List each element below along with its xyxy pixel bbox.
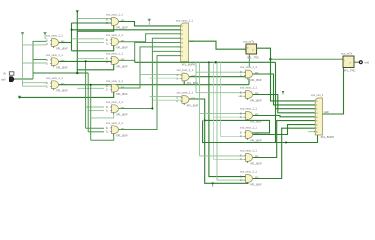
svg-text:XFL_BUF: XFL_BUF <box>250 78 262 82</box>
wire v22.5 net <box>22 33 24 86</box>
svg-text:XFL_TRC: XFL_TRC <box>344 69 356 73</box>
LUT8 M2 <box>311 93 334 139</box>
wire U16 pin b stub <box>238 95 246 97</box>
LUT U5 <box>106 33 128 50</box>
LUT U18 <box>240 126 262 143</box>
wire U8 out to M1 pin7 <box>119 38 181 108</box>
node N8 (net stub) <box>282 91 284 95</box>
wire net to OBUF1 input <box>271 58 344 60</box>
wire x77.3 to U4 bottom <box>77 26 113 31</box>
svg-text:XFL_BUF: XFL_BUF <box>116 25 128 29</box>
svg-text:XFL_BUF: XFL_BUF <box>116 92 128 96</box>
wire v275.5 to M2 pin3 <box>276 108 316 110</box>
wire trunk x33 vertical <box>33 41 46 79</box>
wire feed U14 pin b <box>153 99 182 101</box>
wire v88.2 to U8 pin <box>88 110 104 112</box>
wire v220.5 net <box>221 62 246 136</box>
wire U18 out to M2 <box>253 125 316 135</box>
wire U4 out to M1 pin1 <box>119 22 181 26</box>
wire OBUF1 out <box>354 61 359 63</box>
wire U13 out to U15 <box>189 76 246 78</box>
wire v217 net <box>216 62 218 180</box>
svg-text:xxx_xxxx_1_1: xxx_xxxx_1_1 <box>106 33 123 37</box>
wire feed U4 top pin <box>77 18 111 20</box>
LUT U19 <box>240 149 262 166</box>
svg-text:xxx_xxTx: xxx_xxTx <box>341 52 353 56</box>
wire v88.2 net <box>87 73 89 132</box>
svg-text:xxx_xxxx_1_1: xxx_xxxx_1_1 <box>177 91 194 95</box>
wire x33 branch to U2 pin <box>33 59 46 61</box>
wire feed U5 pin b <box>77 41 104 43</box>
wire v213.4 to U17 <box>213 116 245 118</box>
svg-text:xxx_xxxx_1_1: xxx_xxxx_1_1 <box>176 18 193 22</box>
svg-text:xxx_xxxx_1_1: xxx_xxxx_1_1 <box>240 86 257 90</box>
wire v199.5 to U19 <box>200 155 246 157</box>
node J5 (junction dot) <box>215 61 217 63</box>
wire v22.5 to U3 pin2 <box>23 85 47 87</box>
output pad led0 <box>359 60 370 64</box>
wire v134.7 link <box>134 60 136 62</box>
wire v85.6 to U8 pin <box>86 106 104 108</box>
svg-text:xxx_xxxx_1_1: xxx_xxxx_1_1 <box>46 34 63 38</box>
wire trunk x77.3 <box>76 12 78 73</box>
svg-text:XFL_BUF: XFL_BUF <box>250 161 262 165</box>
wire FF1 bottom stub <box>248 54 250 67</box>
wire U7 out to M1 pin6 <box>119 47 181 88</box>
svg-text:XFL_BUF: XFL_BUF <box>116 46 128 50</box>
wire v196 net <box>195 62 197 92</box>
svg-text:xxx_xxxx_1_1: xxx_xxxx_1_1 <box>240 65 257 69</box>
node N3 (net stub) <box>76 10 79 12</box>
wire v90.7 to U9 bottom <box>91 134 114 140</box>
svg-text:XFL_BUF: XFL_BUF <box>250 119 262 123</box>
wire U19 out to M2 pin6 <box>253 121 316 158</box>
wire x71.5 to U4 pin <box>72 22 112 24</box>
wire v217 to U20 <box>217 179 246 181</box>
LUT U13 <box>176 68 198 85</box>
wire M1 out to FF1 <box>189 41 247 49</box>
node J10 (junction dot) <box>269 58 271 60</box>
wire U9 out to M1 pin8 <box>119 56 181 130</box>
node J2 (junction dot) <box>19 96 21 98</box>
wire rise into U13 bottom <box>183 81 185 84</box>
wire feed U14 pin a <box>150 96 182 98</box>
svg-text:led0: led0 <box>365 61 370 64</box>
svg-text:Q: Q <box>252 50 254 52</box>
node J13 (junction dot) <box>71 29 73 31</box>
wire v199.5 net <box>199 62 201 156</box>
wire v90.7 net <box>90 85 92 141</box>
wire feed U13 pin b <box>149 77 182 79</box>
svg-text:XFL_BUF: XFL_BUF <box>250 182 262 186</box>
node N1 (net stub) <box>21 33 24 35</box>
svg-text:xxx_xxxx_1_1: xxx_xxxx_1_1 <box>240 126 257 130</box>
wire U15 out to M2 <box>253 74 316 105</box>
LUT U20 <box>240 170 262 187</box>
wire v208.9 net <box>209 62 246 176</box>
node N2 (net stub) <box>43 33 46 35</box>
svg-text:sw0: sw0 <box>1 78 6 81</box>
wire U2 output to U6 <box>59 60 112 62</box>
wire h97 long <box>20 92 114 97</box>
svg-text:XFL_BUF: XFL_BUF <box>116 64 128 68</box>
svg-text:XFL_BUF8: XFL_BUF8 <box>321 135 335 139</box>
wire x71.5 to M1 pin2 <box>72 29 181 31</box>
LUT U4 <box>106 13 128 30</box>
wire n6 stub <box>148 20 150 26</box>
svg-text:XFL_BUF: XFL_BUF <box>56 46 68 50</box>
output buffer OBUF1 <box>341 52 356 73</box>
wire x71.5 to U5 bottom <box>72 46 114 51</box>
wire U17 out to M2 <box>253 116 316 117</box>
wire x152.4 branch pin7 <box>152 50 180 52</box>
wire U1 output to trunk x71.5 <box>59 42 72 44</box>
wire v22.5 to U2 pin <box>23 62 47 64</box>
wire feed U7 pin b <box>77 87 104 89</box>
svg-text:XFL_BUF: XFL_BUF <box>116 113 128 117</box>
node N6 (net stub) <box>148 19 151 21</box>
svg-text:XFL_BUF8: XFL_BUF8 <box>182 63 196 67</box>
wire U3 output long net <box>59 84 250 86</box>
LUT U17 <box>240 107 262 124</box>
wire x33 branch y73 <box>33 72 88 74</box>
LUT8 M1 <box>176 18 195 66</box>
wire U16 out to M2 <box>253 95 316 113</box>
node J7 (junction dot) <box>208 61 210 63</box>
wire FF1 out to M2 pin1 <box>257 48 316 101</box>
wire v213.4 net <box>212 62 214 159</box>
svg-text:xxx_xxxx_1_1: xxx_xxxx_1_1 <box>46 53 63 57</box>
wire trunk x71.5 <box>71 23 73 51</box>
LUT U8 <box>106 100 128 117</box>
wire U14 out down <box>189 99 248 183</box>
wire v275.5 net <box>275 62 277 142</box>
wire v22.5 to U1 pin <box>23 44 47 46</box>
input port sw0 <box>1 72 14 82</box>
svg-text:xxx_xxxx_1_1: xxx_xxxx_1_1 <box>240 149 257 153</box>
wire feed U6 pin a <box>77 58 104 60</box>
wire M2 pin9 stub <box>308 131 315 133</box>
svg-text:xxx_xxxx_1_1: xxx_xxxx_1_1 <box>106 100 123 104</box>
wire M2 out to OBUF bottom <box>323 66 344 114</box>
wire v213.4 to U19 <box>213 158 245 160</box>
svg-text:xxx_xxxx_1_1: xxx_xxxx_1_1 <box>177 68 194 72</box>
LUT U1 <box>46 34 68 51</box>
LUT U9 <box>106 121 128 138</box>
node N7 (net stub) <box>212 183 214 186</box>
wire n2 stub down <box>45 33 47 38</box>
LUT U16 <box>240 86 262 103</box>
node J6 (junction dot) <box>204 119 206 121</box>
svg-text:xxx_xxxx_1_1: xxx_xxxx_1_1 <box>106 52 123 56</box>
svg-text:xxx_xxxx_1_1: xxx_xxxx_1_1 <box>46 76 63 80</box>
LUT U3 <box>46 76 68 93</box>
svg-text:xxx_xxxx_1_1: xxx_xxxx_1_1 <box>240 170 257 174</box>
svg-text:XFL_BUF: XFL_BUF <box>116 134 128 138</box>
node J14 (junction dot) <box>151 108 153 110</box>
svg-text:XFL_BUF: XFL_BUF <box>187 81 199 85</box>
svg-text:xxx_xxxx_1_1: xxx_xxxx_1_1 <box>240 107 257 111</box>
svg-text:xxx_xxTx: xxx_xxTx <box>243 40 255 44</box>
wire v22.5 to U3 pin <box>23 82 47 84</box>
wire U20 out to M2 <box>253 128 316 178</box>
wire v196 to U15 <box>196 71 246 73</box>
LUT U7 <box>106 79 128 96</box>
flip-flop FF1 <box>243 40 259 60</box>
svg-text:XFL_BUF: XFL_BUF <box>187 103 199 107</box>
wire U6 out to M1 pin5 <box>119 43 181 61</box>
LUT U14 <box>176 91 198 108</box>
svg-text:XFL_BUF: XFL_BUF <box>250 98 262 102</box>
wire U5 out to M1 pin3 <box>119 34 181 42</box>
node J11 (junction dot) <box>85 60 87 62</box>
wire feed U13 pin a <box>140 74 182 76</box>
svg-text:XFL_BUF: XFL_BUF <box>56 66 68 70</box>
wire input sw0 to trunk x33 <box>14 78 33 80</box>
wire v196 to U16 <box>196 92 246 94</box>
node J1 (junction dot) <box>76 72 78 74</box>
wire v85.6 net <box>85 61 87 128</box>
node J4 (junction dot) <box>212 182 214 184</box>
wire U6 out long y62.3 <box>135 61 276 63</box>
node N5 (net stub) <box>18 96 21 98</box>
svg-text:IN: IN <box>3 73 6 76</box>
svg-text:XFL_BUF: XFL_BUF <box>56 89 68 93</box>
wire rise into U15 bottom <box>248 78 250 84</box>
svg-text:XFL_BUF: XFL_BUF <box>250 138 262 142</box>
LUT U6 <box>106 52 128 69</box>
wire v90.7 to U8 bottom <box>91 113 114 118</box>
svg-text:xxx_xxxx_1_1: xxx_xxxx_1_1 <box>106 79 123 83</box>
node J9 (junction dot) <box>285 142 287 144</box>
wire y142.5 long net to M2 bottom <box>203 120 318 142</box>
node J12 (junction dot) <box>90 84 92 86</box>
wire v88.2 to U9 pin <box>88 131 104 133</box>
svg-text:O: O <box>350 62 352 64</box>
svg-text:xxx_xxxx_1_1: xxx_xxxx_1_1 <box>106 13 123 17</box>
svg-text:xxx_xxxx_1_1: xxx_xxxx_1_1 <box>106 121 123 125</box>
LUT U2 <box>46 53 68 70</box>
svg-text:xxx_xxx_1: xxx_xxx_1 <box>311 93 324 97</box>
wire v199.5 to U17 <box>200 113 246 115</box>
LUT U15 <box>240 65 262 82</box>
wire v85.6 to U9 pin <box>86 127 104 129</box>
wire x77.3 to U6 bottom <box>77 64 113 69</box>
wire y120 hairpin to U18 <box>205 120 270 132</box>
wire feed U5 pin a <box>72 38 105 40</box>
